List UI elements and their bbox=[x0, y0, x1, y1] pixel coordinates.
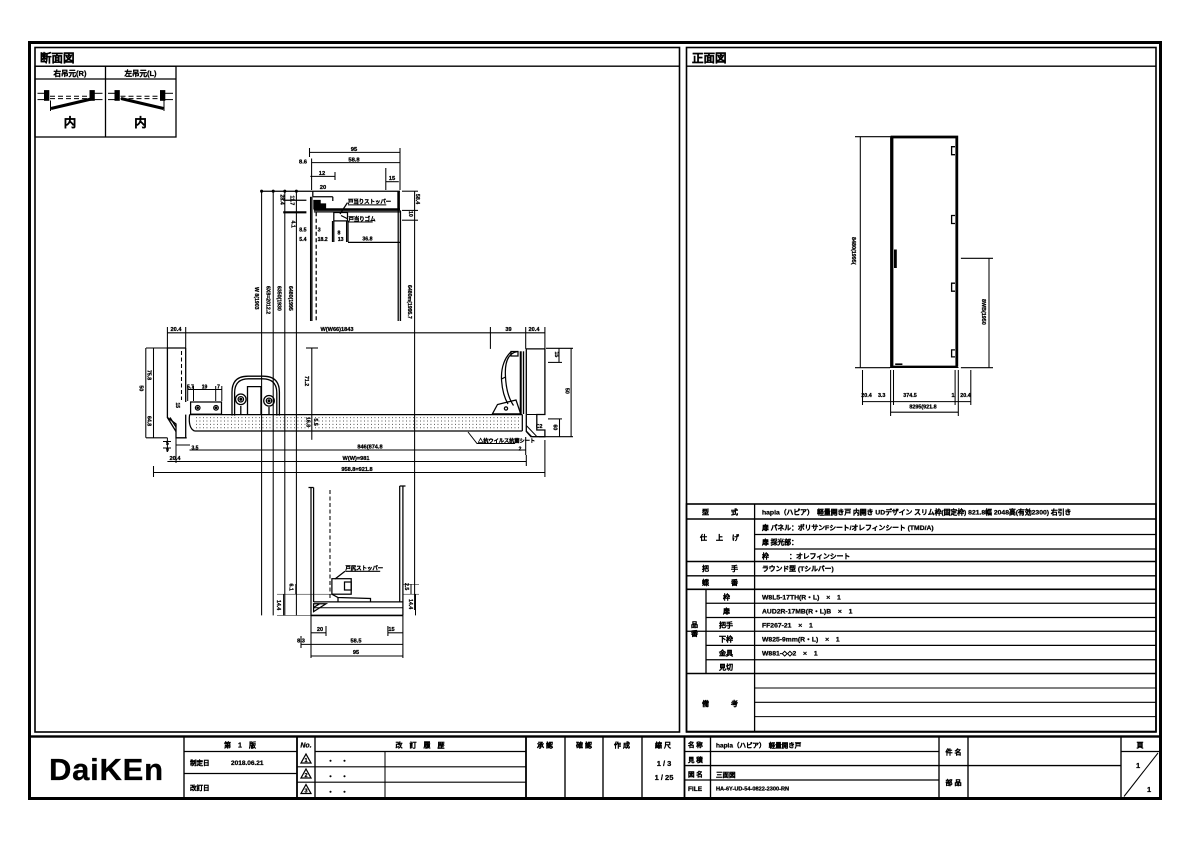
svg-text:改訂日: 改訂日 bbox=[190, 783, 210, 792]
svg-text:95: 95 bbox=[351, 147, 358, 153]
right section box bbox=[687, 48, 1157, 733]
svg-text:15: 15 bbox=[388, 627, 394, 633]
svg-text:71.2: 71.2 bbox=[303, 376, 309, 386]
svg-text:8WB(1950: 8WB(1950 bbox=[980, 299, 986, 325]
svg-text:扉 採光部：: 扉 採光部： bbox=[762, 538, 798, 547]
BS bottom dims bbox=[301, 615, 403, 658]
svg-text:W 8(1903: W 8(1903 bbox=[253, 287, 259, 310]
svg-text:番: 番 bbox=[730, 578, 739, 587]
svg-text:20.4: 20.4 bbox=[960, 393, 971, 399]
svg-text:FILE: FILE bbox=[688, 786, 703, 793]
top width dim line bbox=[167, 327, 545, 349]
svg-text:6480m(1995.7: 6480m(1995.7 bbox=[406, 285, 412, 319]
hinge assembly bbox=[492, 351, 523, 414]
HS left dims bbox=[146, 348, 168, 438]
svg-text:DaiKEn: DaiKEn bbox=[49, 752, 162, 787]
svg-text:3: 3 bbox=[304, 789, 307, 795]
spec table contents bbox=[761, 508, 1071, 658]
svg-text:16.3: 16.3 bbox=[305, 417, 311, 427]
svg-text:型: 型 bbox=[702, 508, 709, 517]
svg-text:番: 番 bbox=[690, 629, 699, 638]
svg-text:扉: 扉 bbox=[722, 607, 730, 616]
dim 15 top bbox=[386, 181, 399, 183]
bottom-left tick bbox=[895, 363, 902, 365]
svg-text:3: 3 bbox=[318, 227, 321, 233]
svg-text:第 1 版: 第 1 版 bbox=[224, 741, 256, 750]
svg-text:1: 1 bbox=[304, 758, 307, 764]
svg-text:部 品: 部 品 bbox=[946, 778, 962, 787]
svg-text:958.8=921.8: 958.8=921.8 bbox=[341, 467, 372, 473]
svg-text:三面図: 三面図 bbox=[716, 770, 736, 779]
dim 36.8 bbox=[348, 241, 401, 243]
dim 12 bbox=[310, 175, 335, 177]
svg-text:6.1: 6.1 bbox=[288, 584, 294, 591]
dim 95 bbox=[310, 151, 401, 153]
left height dim bbox=[855, 137, 890, 368]
svg-text:W(W66)1843: W(W66)1843 bbox=[321, 327, 354, 333]
HS right dims bbox=[539, 348, 573, 436]
rows bbox=[184, 751, 297, 753]
svg-text:3.3: 3.3 bbox=[878, 393, 886, 399]
svg-text:20: 20 bbox=[320, 185, 326, 191]
svg-text:△抗ウイルス抗菌シート: △抗ウイルス抗菌シート bbox=[477, 437, 535, 445]
svg-text:374.5: 374.5 bbox=[903, 393, 917, 399]
svg-text:8480(1995(: 8480(1995( bbox=[850, 237, 856, 265]
svg-text:枠 ：オレフィンシート: 枠 ：オレフィンシート bbox=[761, 552, 850, 561]
revision date dots bbox=[327, 758, 348, 796]
svg-text:4.1: 4.1 bbox=[290, 221, 296, 228]
bottom dims bbox=[863, 370, 971, 416]
svg-text:15: 15 bbox=[174, 403, 180, 409]
svg-text:縮 尺: 縮 尺 bbox=[655, 741, 671, 750]
door leaf rectangle bbox=[890, 136, 959, 368]
svg-text:W8L5-17TH(R・L) × 1: W8L5-17TH(R・L) × 1 bbox=[762, 595, 841, 602]
svg-text:hapia（ハピア） 軽量開き戸: hapia（ハピア） 軽量開き戸 bbox=[716, 741, 802, 750]
svg-text:58.4: 58.4 bbox=[414, 194, 420, 204]
svg-text:把: 把 bbox=[702, 564, 709, 573]
svg-text:見 積: 見 積 bbox=[687, 755, 703, 764]
svg-text:W881-◇◇2 × 1: W881-◇◇2 × 1 bbox=[762, 651, 818, 658]
dim 58.8 bbox=[312, 162, 400, 164]
right-hand cell sill diagram bbox=[38, 91, 103, 111]
BS side dims bbox=[277, 584, 419, 615]
svg-text:AUD2R-17MB(R・L)B × 1: AUD2R-17MB(R・L)B × 1 bbox=[762, 609, 853, 616]
svg-text:8.5: 8.5 bbox=[299, 227, 306, 233]
svg-text:・ ・: ・ ・ bbox=[327, 789, 348, 796]
svg-text:把手: 把手 bbox=[719, 621, 733, 630]
svg-text:15: 15 bbox=[389, 176, 396, 182]
svg-text:6480(1995: 6480(1995 bbox=[287, 286, 293, 311]
svg-text:仕: 仕 bbox=[699, 533, 707, 542]
svg-text:右吊元(R): 右吊元(R) bbox=[53, 68, 87, 78]
svg-text:20: 20 bbox=[317, 627, 323, 633]
svg-text:上: 上 bbox=[716, 533, 723, 542]
svg-text:承 認: 承 認 bbox=[537, 741, 553, 750]
dim 71.2 bbox=[306, 348, 318, 440]
right header line bbox=[687, 65, 1157, 67]
door panel strip bbox=[189, 415, 522, 431]
svg-text:品: 品 bbox=[691, 620, 698, 629]
svg-text:846(874.8: 846(874.8 bbox=[357, 445, 382, 451]
svg-text:19: 19 bbox=[202, 384, 208, 390]
svg-text:36.8: 36.8 bbox=[362, 236, 372, 242]
left section box bbox=[35, 48, 680, 733]
svg-text:件 名: 件 名 bbox=[946, 748, 962, 757]
left-hand cell sill diagram bbox=[108, 91, 173, 111]
svg-text:内: 内 bbox=[134, 115, 147, 130]
svg-text:断面図: 断面図 bbox=[40, 51, 75, 65]
HS bottom-left small dims bbox=[163, 438, 190, 463]
svg-text:50: 50 bbox=[138, 386, 144, 392]
hinge marks bbox=[952, 147, 955, 357]
left frame member bbox=[167, 348, 186, 438]
svg-text:14.4: 14.4 bbox=[275, 600, 281, 610]
svg-text:式: 式 bbox=[731, 508, 738, 517]
svg-text:頁: 頁 bbox=[1137, 742, 1144, 750]
svg-text:12: 12 bbox=[319, 171, 325, 177]
head frame body bbox=[262, 191, 400, 221]
svg-text:HA-6Y-UD-54-0822-2300-RN: HA-6Y-UD-54-0822-2300-RN bbox=[716, 787, 789, 793]
svg-text:60: 60 bbox=[551, 425, 557, 431]
svg-text:備: 備 bbox=[702, 699, 709, 708]
corner hatch bbox=[314, 604, 326, 612]
svg-text:W825-9mm(R・L) × 1: W825-9mm(R・L) × 1 bbox=[762, 637, 840, 644]
svg-text:20.4: 20.4 bbox=[171, 327, 183, 333]
svg-text:58.5: 58.5 bbox=[351, 639, 362, 645]
svg-text:14.4: 14.4 bbox=[407, 599, 413, 609]
door leaf lines below head bbox=[311, 197, 401, 321]
svg-text:5: 5 bbox=[166, 441, 169, 447]
svg-text:20.4: 20.4 bbox=[861, 393, 872, 399]
svg-text:95: 95 bbox=[353, 650, 359, 656]
svg-text:図 名: 図 名 bbox=[688, 770, 703, 779]
page diagonal bbox=[1124, 753, 1158, 797]
latch strike plate bbox=[191, 402, 222, 414]
rubber block 戸当りゴム bbox=[334, 213, 348, 221]
svg-text:8.6: 8.6 bbox=[299, 160, 308, 166]
svg-text:7: 7 bbox=[217, 384, 220, 390]
svg-text:1: 1 bbox=[1147, 785, 1151, 794]
svg-text:5.7: 5.7 bbox=[187, 384, 194, 390]
svg-text:18.2: 18.2 bbox=[318, 237, 328, 243]
svg-text:75.8: 75.8 bbox=[145, 370, 151, 380]
svg-text:扉 パネル：ポリサンFシート/オレフィンシート (TMD/A: 扉 パネル：ポリサンFシート/オレフィンシート (TMD/A) bbox=[762, 523, 934, 532]
svg-text:6350(1930: 6350(1930 bbox=[275, 286, 281, 311]
plate dims 5.7 19 7 bbox=[188, 386, 222, 401]
right partial dim bbox=[961, 258, 993, 367]
svg-text:作 成: 作 成 bbox=[614, 741, 630, 750]
svg-text:FF267-21 × 1: FF267-21 × 1 bbox=[762, 623, 813, 630]
svg-text:2.5: 2.5 bbox=[403, 583, 409, 590]
svg-text:手: 手 bbox=[731, 564, 738, 573]
svg-text:見切: 見切 bbox=[718, 663, 733, 672]
svg-text:8295(921.8: 8295(921.8 bbox=[909, 405, 936, 411]
svg-text:No.: No. bbox=[300, 743, 311, 750]
svg-text:20.4: 20.4 bbox=[170, 456, 182, 462]
svg-text:W(W)=981: W(W)=981 bbox=[343, 456, 370, 462]
svg-text:考: 考 bbox=[731, 699, 738, 708]
svg-text:13: 13 bbox=[338, 237, 344, 243]
svg-text:28.4: 28.4 bbox=[279, 195, 285, 205]
spec table labels bbox=[690, 508, 740, 709]
svg-text:11.7: 11.7 bbox=[288, 196, 294, 206]
handle / pull device (D-shape) bbox=[232, 376, 279, 415]
svg-text:1 / 3: 1 / 3 bbox=[657, 759, 672, 768]
svg-text:9: 9 bbox=[166, 448, 169, 454]
svg-text:名 称: 名 称 bbox=[688, 740, 703, 749]
svg-text:改 訂 履 歴: 改 訂 履 歴 bbox=[396, 741, 445, 750]
svg-text:蝶: 蝶 bbox=[702, 578, 710, 587]
svg-text:左吊元(L): 左吊元(L) bbox=[123, 68, 157, 78]
svg-text:C2: C2 bbox=[536, 424, 543, 430]
svg-text:制定日: 制定日 bbox=[190, 758, 210, 767]
svg-text:・ ・: ・ ・ bbox=[327, 758, 348, 765]
svg-text:げ: げ bbox=[732, 533, 740, 542]
svg-text:15: 15 bbox=[553, 352, 559, 358]
svg-text:64.8: 64.8 bbox=[145, 416, 151, 426]
svg-text:確 認: 確 認 bbox=[576, 741, 592, 750]
right frame member bbox=[526, 349, 545, 437]
svg-text:10: 10 bbox=[407, 211, 413, 217]
svg-text:5.4: 5.4 bbox=[299, 237, 306, 243]
revision triangles bbox=[301, 754, 311, 794]
svg-text:ラウンド型 (Tシルバー): ラウンド型 (Tシルバー) bbox=[762, 564, 834, 573]
svg-text:50: 50 bbox=[563, 388, 569, 394]
svg-text:2: 2 bbox=[304, 773, 307, 779]
svg-text:内: 内 bbox=[64, 115, 77, 130]
svg-text:・ ・: ・ ・ bbox=[327, 774, 348, 781]
svg-text:1: 1 bbox=[1136, 761, 1140, 770]
svg-text:2018.06.21: 2018.06.21 bbox=[231, 760, 264, 767]
svg-text:正面図: 正面図 bbox=[692, 51, 727, 65]
svg-text:下枠: 下枠 bbox=[719, 635, 733, 644]
hanging-side subtable bbox=[35, 66, 176, 137]
svg-text:8: 8 bbox=[338, 230, 341, 236]
svg-text:39: 39 bbox=[505, 327, 511, 333]
svg-text:金具: 金具 bbox=[718, 649, 733, 658]
svg-text:6X8=2012.2: 6X8=2012.2 bbox=[264, 286, 270, 314]
svg-text:3.5: 3.5 bbox=[192, 446, 199, 452]
svg-text:1: 1 bbox=[952, 393, 955, 399]
leader 抗ウイルス抗菌シート bbox=[468, 432, 515, 444]
svg-text:8.3: 8.3 bbox=[297, 639, 305, 645]
svg-text:1 / 25: 1 / 25 bbox=[655, 773, 674, 782]
svg-text:20.4: 20.4 bbox=[529, 327, 541, 333]
title block texts bbox=[224, 741, 1143, 788]
HS bottom dim lines bbox=[154, 437, 545, 477]
left header line bbox=[35, 65, 680, 67]
svg-text:5.5: 5.5 bbox=[312, 419, 318, 426]
svg-text:hapia（ハピア） 軽量開き戸 内開き UDデザイン スリ: hapia（ハピア） 軽量開き戸 内開き UDデザイン スリム枠(固定枠) 82… bbox=[762, 508, 1071, 517]
handle mark bbox=[894, 250, 897, 269]
right side dims of head: 58.4 and 10 bbox=[402, 191, 418, 610]
small dims around head bbox=[279, 195, 373, 243]
svg-text:枠: 枠 bbox=[723, 593, 730, 602]
svg-text:58.8: 58.8 bbox=[348, 158, 360, 164]
